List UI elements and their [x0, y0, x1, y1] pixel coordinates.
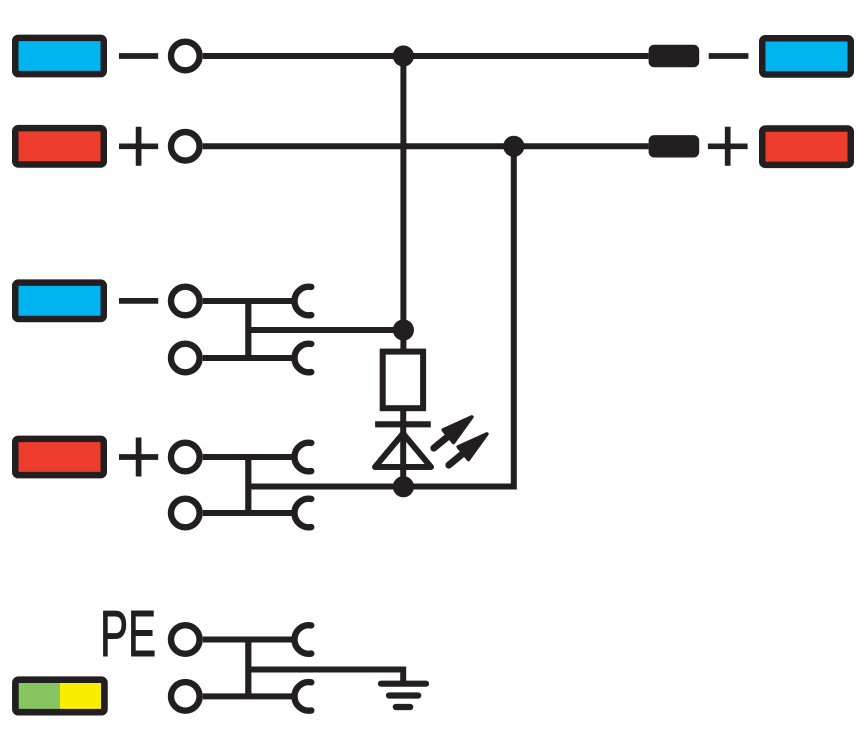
clamp point circle PE upper — [171, 625, 200, 654]
marker label red, row 2 left — [15, 128, 104, 164]
wire PE middle to ground — [248, 670, 403, 684]
plus sign row 4 — [119, 438, 158, 477]
marker label blue, row 1 right — [762, 38, 851, 74]
wire PE tie bar vertical — [245, 640, 251, 697]
marker label green-yellow PE — [15, 680, 104, 713]
ground symbol bar 1 — [381, 681, 426, 687]
plus sign row 2 right — [708, 127, 748, 166]
wire vertical from row 2 junction down and left along row 4 mid — [248, 146, 514, 486]
socket contact arc row 4 lower — [294, 499, 311, 528]
clamp point circle row 1 — [171, 42, 200, 71]
ferrule plug row 2 right — [649, 135, 700, 157]
wire row 4 lower — [203, 510, 295, 516]
node junction row 3 — [393, 319, 414, 340]
marker label blue, row 3 left — [15, 283, 104, 319]
marker label red, row 4 left — [15, 439, 104, 475]
LED cathode bar — [375, 421, 431, 427]
clamp point circle PE lower — [171, 682, 200, 711]
wire vertical bus from row 1 junction down to resistor — [400, 56, 406, 352]
LED triangle — [375, 434, 431, 468]
wire row 4 upper — [203, 454, 295, 460]
socket contact arc row 4 upper — [294, 443, 311, 472]
LED emission arrow 2 — [441, 428, 492, 474]
clamp point circle row 4 lower — [171, 499, 200, 528]
resistor R — [383, 352, 423, 409]
socket contact arc PE upper — [294, 625, 311, 654]
clamp point circle row 3 upper — [171, 287, 200, 316]
clamp point circle row 2 — [171, 132, 200, 161]
wire PE lower — [203, 693, 295, 699]
minus sign row 1 left — [119, 53, 158, 59]
wire row 4 tie bar vertical — [245, 457, 251, 513]
minus sign row 1 right — [709, 53, 749, 59]
clamp point circle row 3 lower — [171, 344, 200, 373]
LED emission arrow 1 — [426, 411, 477, 457]
minus sign row 3 — [119, 298, 158, 304]
wire row 2 horizontal — [203, 143, 649, 149]
wire row 1 horizontal — [203, 53, 649, 59]
wire PE upper — [203, 637, 295, 643]
marker label red, row 2 right — [762, 129, 851, 165]
node junction row 1 — [393, 45, 414, 66]
socket contact arc PE lower — [294, 682, 311, 711]
clamp point circle row 4 upper — [171, 443, 200, 472]
ground symbol bar 3 — [396, 704, 410, 710]
socket contact arc row 3 upper — [294, 287, 311, 316]
wire row 3 lower — [203, 355, 295, 361]
socket contact arc row 3 lower — [294, 344, 311, 373]
wire through LED vertical — [400, 411, 406, 487]
wire row 3 middle to junction — [248, 327, 403, 333]
node junction row 2 — [503, 136, 524, 157]
plus sign row 2 left — [119, 127, 158, 166]
node junction below LED — [393, 476, 414, 497]
marker label blue, row 1 left — [15, 38, 104, 74]
ground symbol bar 2 — [389, 692, 418, 698]
ferrule plug row 1 right — [649, 45, 700, 67]
wire row 3 upper — [203, 298, 295, 304]
wire row 3 tie bar vertical — [245, 301, 251, 358]
svg-text:PE: PE — [100, 598, 156, 670]
